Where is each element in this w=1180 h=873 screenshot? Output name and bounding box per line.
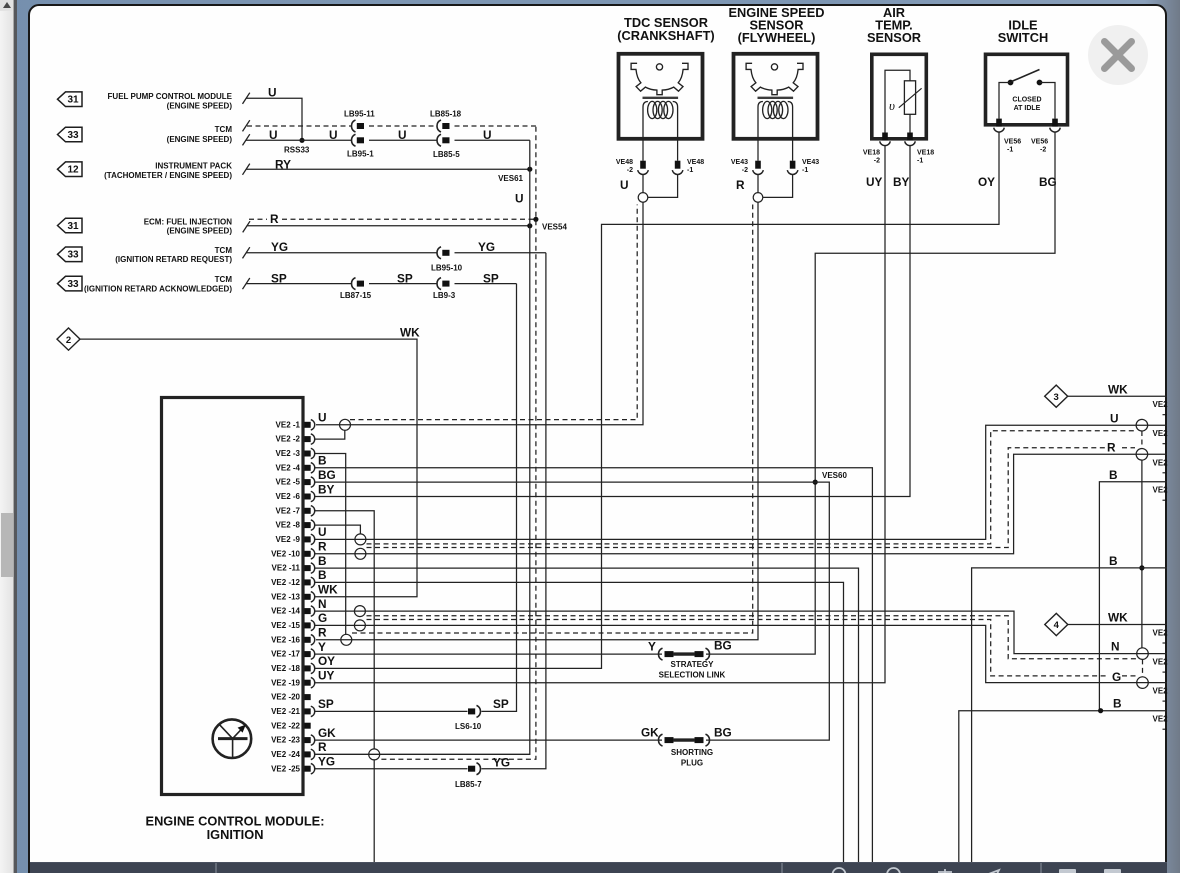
ES pin VE43-2 bbox=[757, 141, 759, 161]
svg-text:VE2: VE2 bbox=[1153, 687, 1169, 696]
svg-text:SP: SP bbox=[483, 272, 499, 286]
wire R ECM fuel-injection dashed row bbox=[249, 218, 267, 220]
svg-text:B: B bbox=[1109, 468, 1118, 482]
wire U fuel pump row bbox=[246, 98, 302, 140]
svg-text:OY: OY bbox=[318, 654, 335, 668]
svg-text:N: N bbox=[1111, 640, 1120, 654]
svg-text:U: U bbox=[515, 192, 524, 206]
svg-text:33: 33 bbox=[67, 250, 79, 261]
svg-text:STRATEGY: STRATEGY bbox=[671, 660, 715, 669]
wire BY air temp to VE2-6 bbox=[315, 146, 910, 497]
wire BG VE2-5 to shorting plug BG bbox=[315, 482, 829, 740]
svg-text:R: R bbox=[736, 178, 745, 192]
svg-text:VES60: VES60 bbox=[822, 471, 847, 480]
svg-text:VE2 -1: VE2 -1 bbox=[276, 420, 301, 429]
rings VE2-14 / VE2-15 bbox=[354, 606, 365, 617]
engine speed reluctor gear bbox=[746, 63, 803, 94]
wire WK to right edge (lower) bbox=[1068, 624, 1167, 626]
wire UY air temp to VE2-19 bbox=[315, 146, 885, 683]
wire B VE2-11 bbox=[315, 568, 859, 862]
svg-text:G: G bbox=[318, 611, 327, 625]
scrollbar thumb bbox=[1, 513, 13, 577]
svg-text:-1: -1 bbox=[687, 167, 693, 174]
svg-text:(FLYWHEEL): (FLYWHEEL) bbox=[738, 30, 816, 45]
svg-text:VE2 -2: VE2 -2 bbox=[276, 435, 301, 444]
svg-text:VE2 -8: VE2 -8 bbox=[276, 521, 301, 530]
toolbar icon hints (clipped) bbox=[833, 868, 1000, 873]
wire U VE2-9 to right connector bbox=[315, 425, 1167, 539]
TDC pin VE48-1 bbox=[677, 141, 679, 161]
svg-text:-2: -2 bbox=[874, 158, 880, 165]
svg-text:Y: Y bbox=[318, 640, 326, 654]
wire G VE2-15 to right connector bbox=[315, 625, 1167, 682]
svg-text:-1: -1 bbox=[802, 167, 808, 174]
wire screen dashed trunk vertical bbox=[379, 127, 536, 760]
AT pin VE18-2 bbox=[882, 133, 888, 141]
svg-text:YG: YG bbox=[318, 755, 335, 769]
svg-text:YG: YG bbox=[271, 240, 288, 254]
svg-text:YG: YG bbox=[493, 755, 510, 769]
svg-text:UY: UY bbox=[866, 175, 883, 189]
connector flag 33 bbox=[58, 247, 83, 262]
wire VE2-2 jumper to ring bbox=[315, 430, 345, 439]
wire N VE2-14 to right connector bbox=[315, 611, 1167, 654]
wire B right bottom bbox=[959, 711, 1167, 863]
TDC pickup coil bbox=[643, 97, 679, 99]
svg-text:31: 31 bbox=[67, 221, 79, 232]
svg-text:UY: UY bbox=[318, 669, 335, 683]
wire colour labels at ECM pins bbox=[318, 411, 338, 769]
svg-text:VE2 -14: VE2 -14 bbox=[271, 607, 300, 616]
svg-text:R: R bbox=[318, 740, 327, 754]
svg-text:2: 2 bbox=[66, 335, 71, 346]
svg-text:-2: -2 bbox=[627, 167, 633, 174]
svg-text:B: B bbox=[1109, 554, 1118, 568]
ring on VE2-1 bbox=[340, 419, 351, 430]
svg-text:Y: Y bbox=[648, 640, 656, 654]
engine speed pickup coil bbox=[758, 97, 794, 99]
svg-text:U: U bbox=[1110, 411, 1119, 425]
svg-text:VE2 -6: VE2 -6 bbox=[276, 492, 301, 501]
svg-text:SWITCH: SWITCH bbox=[998, 30, 1048, 45]
svg-text:-2: -2 bbox=[1040, 147, 1046, 154]
svg-text:(ENGINE SPEED): (ENGINE SPEED) bbox=[167, 135, 233, 144]
connector LB95-1 bbox=[352, 134, 356, 146]
svg-text:BY: BY bbox=[318, 482, 335, 496]
wire SP ignition-retard-acknowledged row bbox=[246, 283, 351, 285]
svg-text:12: 12 bbox=[67, 165, 79, 176]
close button bbox=[1088, 25, 1148, 85]
svg-text:VE18: VE18 bbox=[917, 150, 934, 157]
svg-text:SHORTING: SHORTING bbox=[671, 748, 713, 757]
wire BG idle switch / strategy link bbox=[706, 132, 1055, 654]
node VES54 bbox=[527, 223, 532, 228]
svg-text:VE43: VE43 bbox=[802, 159, 819, 166]
rings at right connector bbox=[1136, 419, 1148, 431]
ES pin VE43-1 bbox=[792, 141, 794, 161]
wire YG vertical bbox=[482, 253, 546, 769]
svg-text:WK: WK bbox=[400, 325, 420, 339]
wire Y VE2-17 to strategy link bbox=[315, 653, 662, 655]
svg-text:31: 31 bbox=[67, 95, 79, 106]
svg-text:U: U bbox=[329, 128, 338, 142]
svg-text:BG: BG bbox=[1039, 175, 1057, 189]
svg-text:LS6-10: LS6-10 bbox=[455, 722, 482, 731]
svg-text:VE18: VE18 bbox=[863, 150, 880, 157]
wire VE2-8 jumper to U ring bbox=[315, 525, 360, 534]
svg-text:(TACHOMETER / ENGINE SPEED): (TACHOMETER / ENGINE SPEED) bbox=[104, 171, 232, 180]
right edge wire labels bbox=[1107, 382, 1128, 710]
svg-text:U: U bbox=[318, 411, 327, 425]
svg-text:LB95-10: LB95-10 bbox=[431, 264, 463, 273]
wire ECM fuel-injection solid row bbox=[247, 225, 530, 227]
ECM: ignition box bbox=[162, 398, 304, 795]
svg-text:(ENGINE SPEED): (ENGINE SPEED) bbox=[167, 101, 233, 110]
svg-text:PLUG: PLUG bbox=[681, 759, 703, 768]
svg-text:G: G bbox=[1112, 670, 1121, 684]
svg-text:B: B bbox=[1113, 697, 1122, 711]
wire SP vertical bbox=[482, 284, 517, 712]
connector flag 12 bbox=[58, 162, 83, 177]
svg-text:SP: SP bbox=[493, 697, 509, 711]
dashed screen jumpers at right connector bbox=[1141, 431, 1143, 449]
wire WK to right edge (top) bbox=[1068, 395, 1167, 397]
screen dashed pair lower nest upper bbox=[367, 616, 1140, 659]
svg-text:LB85-7: LB85-7 bbox=[455, 780, 482, 789]
svg-text:U: U bbox=[269, 128, 278, 142]
svg-text:IGNITION: IGNITION bbox=[207, 827, 264, 842]
svg-text:VE56: VE56 bbox=[1004, 139, 1021, 146]
svg-text:BG: BG bbox=[714, 726, 732, 740]
svg-text:YG: YG bbox=[478, 240, 495, 254]
screen dashed pair lower nest lower bbox=[367, 620, 1107, 676]
svg-text:3: 3 bbox=[1054, 392, 1059, 403]
svg-text:VE2 -4: VE2 -4 bbox=[276, 463, 301, 472]
svg-text:GK: GK bbox=[318, 726, 336, 740]
shorting plug link bbox=[659, 734, 663, 746]
wire OY idle switch to VE2-18 bbox=[315, 132, 999, 668]
AT pin VE18-1 bbox=[907, 133, 913, 141]
scrollbar track bbox=[0, 0, 14, 873]
IS pin VE56-2 bbox=[1052, 119, 1058, 127]
svg-text:WK: WK bbox=[1108, 382, 1128, 396]
node RSS33 bbox=[299, 138, 304, 143]
svg-text:VE2 -9: VE2 -9 bbox=[276, 535, 301, 544]
svg-text:VE2: VE2 bbox=[1153, 658, 1169, 667]
svg-text:VE2 -19: VE2 -19 bbox=[271, 678, 300, 687]
wire ES screen dashed bbox=[352, 205, 753, 634]
TDC screened-cable ring bbox=[642, 175, 644, 193]
svg-text:VE2 -24: VE2 -24 bbox=[271, 750, 300, 759]
left destination labels bbox=[84, 92, 233, 294]
wire-start slash marks bbox=[243, 93, 250, 104]
connector LB95-10 bbox=[437, 247, 441, 259]
screen dashed pair lower bbox=[367, 448, 1107, 548]
connector flag 33 bbox=[58, 127, 83, 142]
svg-text:-1: -1 bbox=[917, 158, 923, 165]
wire RY instrument pack row bbox=[246, 168, 530, 170]
svg-text:BG: BG bbox=[714, 639, 732, 653]
node VES61 bbox=[527, 167, 532, 172]
svg-text:VE2 -13: VE2 -13 bbox=[271, 592, 300, 601]
ring VE2-24 bbox=[369, 749, 380, 760]
IS pin VE56-1 bbox=[996, 119, 1002, 127]
svg-text:LB85-5: LB85-5 bbox=[433, 150, 460, 159]
svg-text:VES61: VES61 bbox=[498, 174, 523, 183]
svg-text:33: 33 bbox=[67, 279, 79, 290]
svg-text:LB9-3: LB9-3 bbox=[433, 291, 456, 300]
junction on screen line bbox=[533, 217, 538, 222]
air temp sensor box bbox=[872, 54, 927, 139]
wire YG ignition-retard-request row bbox=[246, 252, 437, 254]
wire right vertical R-B-N bbox=[1141, 460, 1143, 649]
wire U/R trunk vertical (VES61/VES54) bbox=[315, 140, 530, 754]
wire R engine-speed signal to VE2-16 bbox=[316, 202, 758, 640]
wire B VE2-4 bbox=[315, 468, 872, 863]
svg-text:VE2: VE2 bbox=[1153, 629, 1169, 638]
svg-text:TCM: TCM bbox=[215, 125, 233, 134]
connector LB85-18 bbox=[437, 120, 441, 132]
idle switch box bbox=[986, 54, 1068, 125]
svg-text:VE2: VE2 bbox=[1153, 400, 1169, 409]
svg-text:WK: WK bbox=[1108, 611, 1128, 625]
svg-text:LB95-11: LB95-11 bbox=[344, 110, 375, 119]
svg-text:(IGNITION RETARD ACKNOWLEDGED): (IGNITION RETARD ACKNOWLEDGED) bbox=[84, 285, 232, 294]
connector flag 31 bbox=[58, 92, 83, 107]
connector diamond 3 bbox=[1045, 385, 1068, 407]
svg-text:LB85-18: LB85-18 bbox=[430, 110, 462, 119]
strategy selection link bbox=[659, 648, 663, 660]
svg-text:VE2 -16: VE2 -16 bbox=[271, 635, 300, 644]
svg-text:CLOSED: CLOSED bbox=[1012, 97, 1041, 104]
svg-text:-1: -1 bbox=[1007, 147, 1013, 154]
connector diamond 4 bbox=[1045, 613, 1068, 635]
svg-text:VE2 -22: VE2 -22 bbox=[271, 721, 300, 730]
ECM ignition transistor symbol bbox=[213, 719, 252, 758]
screen dashed pair upper bbox=[367, 431, 1135, 544]
svg-text:R: R bbox=[318, 626, 327, 640]
TDC reluctor gear bbox=[631, 63, 688, 94]
svg-text:B: B bbox=[318, 568, 327, 582]
svg-text:VE2 -15: VE2 -15 bbox=[271, 621, 300, 630]
wire SP VE2-21 through LS6-10 bbox=[315, 710, 468, 712]
svg-text:U: U bbox=[398, 128, 407, 142]
svg-text:LB95-1: LB95-1 bbox=[347, 150, 374, 159]
wire B right middle bbox=[972, 568, 1167, 863]
TDC pin VE48-2 bbox=[642, 141, 644, 161]
svg-text:VE2 -21: VE2 -21 bbox=[271, 707, 300, 716]
svg-text:ECM: FUEL INJECTION: ECM: FUEL INJECTION bbox=[144, 217, 233, 226]
wire TCM engine-speed dashed row bbox=[247, 125, 351, 127]
svg-text:VE48: VE48 bbox=[616, 159, 633, 166]
svg-text:VE2 -20: VE2 -20 bbox=[271, 693, 300, 702]
toolbar separators bbox=[215, 863, 217, 873]
svg-text:U: U bbox=[483, 128, 492, 142]
connector LB87-15 bbox=[352, 278, 356, 290]
svg-text:BY: BY bbox=[893, 175, 910, 189]
thermistor element bbox=[885, 70, 910, 132]
connector diamond 2 bbox=[57, 328, 80, 350]
bottom toolbar bbox=[30, 862, 1167, 873]
svg-text:VE2 -7: VE2 -7 bbox=[276, 506, 301, 515]
svg-text:(CRANKSHAFT): (CRANKSHAFT) bbox=[617, 28, 714, 43]
svg-text:R: R bbox=[318, 540, 327, 554]
svg-text:VE56: VE56 bbox=[1031, 139, 1048, 146]
svg-text:VE2 -3: VE2 -3 bbox=[276, 449, 301, 458]
svg-text:VE2 -23: VE2 -23 bbox=[271, 736, 300, 745]
wire U TDC signal to VE2-1 bbox=[316, 202, 643, 424]
svg-text:R: R bbox=[270, 212, 279, 226]
svg-text:SP: SP bbox=[318, 697, 334, 711]
svg-text:33: 33 bbox=[67, 130, 79, 141]
scrollbar up button bbox=[0, 0, 13, 11]
svg-text:VE48: VE48 bbox=[687, 159, 704, 166]
svg-text:U: U bbox=[318, 525, 327, 539]
svg-text:GK: GK bbox=[641, 726, 659, 740]
svg-text:B: B bbox=[318, 454, 327, 468]
svg-text:OY: OY bbox=[978, 175, 995, 189]
wire B right top bbox=[1099, 482, 1167, 711]
window edge divider bbox=[14, 0, 17, 873]
wire R VE2-24 row bbox=[315, 753, 530, 755]
svg-text:VE2 -25: VE2 -25 bbox=[271, 764, 300, 773]
svg-text:4: 4 bbox=[1054, 620, 1060, 631]
wire YG VE2-25 through LB85-7 bbox=[315, 768, 468, 770]
svg-text:υ: υ bbox=[889, 98, 895, 113]
svg-text:AT IDLE: AT IDLE bbox=[1014, 105, 1041, 112]
svg-text:VE2 -10: VE2 -10 bbox=[271, 549, 300, 558]
wire WK from diamond 2 to VE2-13 bbox=[80, 339, 417, 597]
wire R VE2-10 to right connector bbox=[315, 454, 1167, 554]
node VES60 bbox=[813, 480, 818, 485]
wire TDC screen dashed bbox=[350, 205, 637, 420]
right edge VE2 continuation labels bbox=[1153, 400, 1169, 729]
connector flag 33 bbox=[58, 276, 83, 291]
engine speed sensor box bbox=[734, 54, 818, 139]
connector LB85-5 bbox=[437, 134, 441, 146]
svg-text:VE2: VE2 bbox=[1153, 458, 1169, 467]
svg-text:R: R bbox=[1107, 441, 1116, 455]
svg-text:VE2 -18: VE2 -18 bbox=[271, 664, 300, 673]
svg-text:VE2: VE2 bbox=[1153, 715, 1169, 724]
svg-text:BG: BG bbox=[318, 468, 336, 482]
svg-text:FUEL PUMP CONTROL MODULE: FUEL PUMP CONTROL MODULE bbox=[108, 92, 233, 101]
svg-text:VE2 -12: VE2 -12 bbox=[271, 578, 300, 587]
svg-text:VE2 -17: VE2 -17 bbox=[271, 650, 300, 659]
svg-text:LB87-15: LB87-15 bbox=[340, 291, 372, 300]
wire GK VE2-23 to shorting plug bbox=[315, 739, 662, 741]
connector flag 31 bbox=[58, 218, 83, 233]
svg-text:WK: WK bbox=[318, 583, 338, 597]
ES screened-cable ring bbox=[757, 175, 759, 193]
ring VE2-16 screen bbox=[341, 634, 352, 645]
svg-text:SENSOR: SENSOR bbox=[867, 30, 921, 45]
wire VE2-3 to screen ring bbox=[315, 454, 346, 635]
wire B VE2-12 bbox=[315, 582, 844, 862]
connector LB95-11 bbox=[352, 120, 356, 132]
wire VE2-7 down through R ring to bottom bbox=[315, 511, 374, 750]
svg-text:VE2 -11: VE2 -11 bbox=[272, 564, 301, 573]
ECM pins VE2-1..25 bbox=[271, 420, 315, 774]
svg-text:TCM: TCM bbox=[215, 246, 233, 255]
svg-text:VE2 -5: VE2 -5 bbox=[276, 478, 301, 487]
switch contacts bbox=[1008, 80, 1014, 86]
svg-text:U: U bbox=[620, 178, 629, 192]
TDC sensor box bbox=[619, 54, 703, 139]
svg-text:B: B bbox=[318, 554, 327, 568]
svg-text:VE2: VE2 bbox=[1153, 429, 1169, 438]
svg-text:(ENGINE SPEED): (ENGINE SPEED) bbox=[167, 226, 233, 235]
svg-text:SP: SP bbox=[397, 272, 413, 286]
svg-text:U: U bbox=[268, 86, 277, 100]
svg-text:RSS33: RSS33 bbox=[284, 146, 310, 155]
svg-text:INSTRUMENT PACK: INSTRUMENT PACK bbox=[155, 162, 232, 171]
rings VE2-9 / VE2-10 bbox=[355, 534, 366, 545]
connector LB9-3 bbox=[437, 278, 441, 290]
svg-text:VES54: VES54 bbox=[542, 223, 567, 232]
svg-text:VE43: VE43 bbox=[731, 159, 748, 166]
svg-text:-2: -2 bbox=[742, 167, 748, 174]
svg-text:TCM: TCM bbox=[215, 275, 233, 284]
svg-text:N: N bbox=[318, 597, 327, 611]
svg-text:RY: RY bbox=[275, 157, 291, 171]
wire TCM engine-speed solid U row bbox=[246, 139, 351, 141]
svg-text:VE2: VE2 bbox=[1153, 486, 1169, 495]
svg-text:(IGNITION RETARD REQUEST): (IGNITION RETARD REQUEST) bbox=[115, 255, 232, 264]
svg-text:SP: SP bbox=[271, 272, 287, 286]
svg-text:SELECTION LINK: SELECTION LINK bbox=[659, 671, 726, 680]
